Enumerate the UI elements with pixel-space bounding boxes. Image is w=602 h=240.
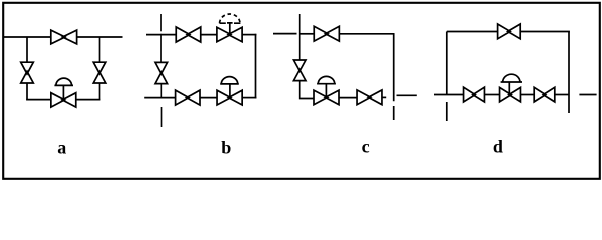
valve A3 right bypass block valve bbox=[93, 62, 106, 83]
wire B right downcomer bbox=[255, 34, 257, 99]
wire C top branch right bbox=[339, 33, 394, 35]
control valve B-CV2 body bbox=[217, 90, 242, 105]
valve B1 top branch gate valve bbox=[176, 27, 201, 42]
svg-text:a: a bbox=[57, 137, 66, 157]
wire A bottom-right pipe bbox=[76, 99, 101, 101]
wire D inlet lower stub bbox=[446, 102, 448, 121]
svg-text:b: b bbox=[221, 137, 231, 157]
wire B bottom branch middle bbox=[200, 97, 217, 99]
wire C bottom branch middle bbox=[339, 97, 357, 99]
wire A top-right pipe bbox=[77, 36, 123, 38]
valve C2 top branch gate valve bbox=[314, 26, 339, 41]
wire B outlet stub bbox=[161, 107, 163, 127]
actuator stem B-CV1 bbox=[227, 23, 233, 35]
wire D main line right bbox=[555, 94, 569, 96]
wire A right riser upper bbox=[99, 37, 101, 62]
wire B top branch middle bbox=[201, 34, 217, 36]
actuator dome A-CV bbox=[54, 78, 73, 85]
valve B2 main line block valve bbox=[155, 62, 168, 83]
wire C top branch left bbox=[300, 33, 315, 35]
wire C outlet stub bbox=[393, 106, 395, 120]
wire B main vertical lower bbox=[160, 84, 162, 98]
wire B top branch left bbox=[146, 34, 176, 36]
wire C outlet break dash bbox=[397, 94, 417, 96]
wire D right riser and outlet bbox=[568, 32, 570, 114]
valve D2 upstream block valve bbox=[464, 87, 485, 102]
wire D main line segment 3 bbox=[521, 94, 535, 96]
wire B inlet stub bbox=[160, 14, 162, 31]
actuator dome D-CV bbox=[501, 74, 522, 82]
wire B main vertical upper bbox=[160, 34, 162, 63]
wire D outlet break dash bbox=[579, 94, 596, 96]
wire A top-left pipe bbox=[4, 36, 51, 38]
control valve A-CV body bbox=[51, 93, 76, 107]
wire B bottom branch left bbox=[144, 97, 175, 99]
svg-text:c: c bbox=[362, 136, 370, 156]
valve A2 left bypass block valve bbox=[21, 62, 34, 83]
actuator dome B-CV2 bbox=[220, 77, 239, 84]
wire B top branch right bbox=[242, 34, 256, 36]
dashed dome base B-CV1 bbox=[220, 22, 241, 24]
wire D main line segment 2 bbox=[485, 94, 500, 96]
actuator stem C-CV bbox=[325, 84, 327, 98]
wire C inlet break dash bbox=[273, 33, 297, 35]
wire C main vertical lower with corner bbox=[300, 81, 314, 99]
wire C main vertical upper bbox=[299, 14, 301, 60]
valve D1 bypass gate valve bbox=[498, 24, 521, 39]
wire A bottom-left pipe bbox=[26, 99, 51, 101]
actuator stem A-CV bbox=[62, 85, 64, 99]
valve A1 gate valve on main pipe bbox=[51, 30, 77, 44]
wire A left riser lower bbox=[26, 83, 28, 100]
valve D3 downstream block valve bbox=[534, 87, 555, 102]
wire C right downcomer bbox=[393, 34, 395, 102]
wire C bottom branch end bbox=[382, 96, 386, 98]
wire B bottom branch right bbox=[242, 97, 256, 99]
wire D bypass top right bbox=[520, 31, 570, 33]
wire D main line left bbox=[434, 94, 464, 96]
wire D bypass left riser bbox=[446, 32, 448, 95]
valve C1 main line block valve bbox=[293, 60, 306, 81]
actuator stem B-CV2 bbox=[229, 84, 231, 98]
control valve C-CV body bbox=[314, 90, 339, 105]
actuator dome C-CV bbox=[317, 76, 336, 83]
control valve B-CV1 body (projected) bbox=[217, 27, 242, 41]
valve C3 bottom branch gate valve bbox=[357, 90, 382, 105]
svg-text:d: d bbox=[493, 136, 503, 156]
actuator stem D-CV bbox=[508, 82, 510, 95]
wire A right riser lower bbox=[99, 83, 101, 100]
valve B3 bottom branch gate valve bbox=[176, 90, 200, 105]
control valve D-CV body bbox=[500, 87, 521, 101]
wire D bypass top left bbox=[447, 31, 498, 33]
wire A left riser upper bbox=[26, 37, 28, 62]
dashed actuator dome B-CV1 bbox=[220, 14, 240, 23]
